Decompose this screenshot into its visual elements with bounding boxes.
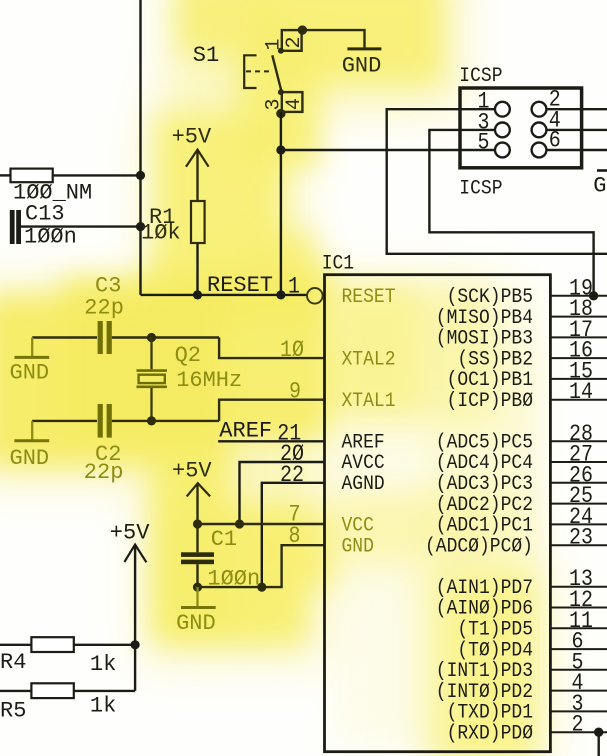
svg-text:(ADCØ)PCØ): (ADCØ)PCØ) <box>425 535 533 558</box>
IC1 pin 15 (OC1)PB1 <box>550 378 607 380</box>
ICSP pin 4 <box>532 122 547 137</box>
svg-text:(ICP)PBØ: (ICP)PBØ <box>447 389 533 412</box>
wire ICSP pin1 (MISO) <box>387 109 607 254</box>
ICSP pin 6 <box>532 143 547 158</box>
resistor 100_NM <box>0 174 11 176</box>
svg-text:+5V: +5V <box>172 459 212 484</box>
svg-text:(T1)PD5: (T1)PD5 <box>457 618 533 641</box>
svg-text:16MHz: 16MHz <box>176 368 242 393</box>
svg-text:(SCK)PB5: (SCK)PB5 <box>447 285 533 308</box>
IC1 pin 16 (SS)PB2 <box>550 357 607 359</box>
capacitor C1 100n <box>196 524 198 552</box>
ground symbol at right edge (cut) <box>597 169 607 172</box>
switch S1 contact box pin2 <box>282 30 302 51</box>
junction switch/ICSP pin5 <box>276 145 285 154</box>
svg-text:+5V: +5V <box>110 521 150 546</box>
svg-text:4: 4 <box>283 98 306 110</box>
svg-text:+5V: +5V <box>172 125 212 150</box>
switch S1 lever <box>272 55 281 91</box>
svg-text:(ADC2)PC2: (ADC2)PC2 <box>436 493 533 516</box>
svg-text:C13: C13 <box>25 202 65 227</box>
svg-text:1k: 1k <box>90 694 116 719</box>
svg-text:AREF: AREF <box>219 419 272 444</box>
svg-text:(AIN1)PD7: (AIN1)PD7 <box>436 576 533 599</box>
svg-text:R4: R4 <box>0 650 26 675</box>
IC1 pin 27 (ADC4)PC4 <box>550 461 607 463</box>
IC1 pin 24 (ADC1)PC1 <box>550 523 607 525</box>
junction pin2 net <box>594 728 603 737</box>
svg-text:9: 9 <box>289 378 301 405</box>
junction switch pin4 <box>276 109 285 118</box>
wire R1 bottom <box>196 243 198 295</box>
svg-text:(INTØ)PD2: (INTØ)PD2 <box>436 680 533 703</box>
svg-text:3: 3 <box>263 98 286 110</box>
IC1 pin 25 (ADC2)PC2 <box>550 503 607 505</box>
wire pin2 down to edge <box>598 732 600 756</box>
IC1 pin 2 (RXD)PD0 <box>550 731 607 733</box>
IC1 pin 23 (ADC0)PC0) <box>550 544 607 546</box>
resistor R4 1k <box>0 644 31 646</box>
svg-text:R5: R5 <box>0 699 26 724</box>
svg-text:(INT1)PD3: (INT1)PD3 <box>436 659 533 682</box>
ICSP pin 5 <box>495 143 510 158</box>
svg-text:(ADC1)PC1: (ADC1)PC1 <box>436 514 533 537</box>
svg-text:(MISO)PB4: (MISO)PB4 <box>436 306 533 329</box>
net RESET <box>141 294 308 296</box>
junction XTAL2 node <box>147 333 156 342</box>
junction XTAL1 node <box>147 416 156 425</box>
wire C3 to node <box>112 336 219 338</box>
svg-text:XTAL1: XTAL1 <box>342 389 396 412</box>
wire ICSP pin3 (SCK) to IC pin19 <box>429 130 593 295</box>
capacitor C3 <box>98 321 103 354</box>
svg-text:1Ø: 1Ø <box>280 337 304 364</box>
svg-text:GND: GND <box>10 446 50 471</box>
svg-text:C1: C1 <box>211 527 237 552</box>
svg-text:(ADC4)PC4: (ADC4)PC4 <box>436 451 533 474</box>
svg-text:GND: GND <box>342 535 374 558</box>
svg-text:22: 22 <box>280 461 304 488</box>
wire GND to C3 <box>32 336 97 338</box>
svg-text:22p: 22p <box>84 460 124 485</box>
svg-text:AVCC: AVCC <box>342 451 385 474</box>
IC1 pin 3 (TXD)PD1 <box>550 710 607 712</box>
svg-text:8: 8 <box>289 523 301 550</box>
ICSP pin 1 <box>495 102 510 117</box>
svg-text:(OC1)PB1: (OC1)PB1 <box>447 368 533 391</box>
svg-text:1: 1 <box>288 273 300 300</box>
svg-text:GND: GND <box>10 361 50 386</box>
wire switch pin2 to GND <box>302 30 364 48</box>
wire ICSP pin 4 to right edge <box>546 129 607 131</box>
svg-text:Q2: Q2 <box>175 343 201 368</box>
svg-text:(TXD)PD1: (TXD)PD1 <box>447 701 533 724</box>
svg-text:VCC: VCC <box>342 514 374 537</box>
IC1 pin 28 (ADC5)PC5 <box>550 440 607 442</box>
junction switch pin2 <box>298 25 307 34</box>
IC1 pin 13 (AIN1)PD7 <box>550 586 607 588</box>
wire 100_NM to main net <box>53 174 141 176</box>
svg-text:22p: 22p <box>84 296 124 321</box>
svg-text:2: 2 <box>283 36 306 48</box>
IC1 pin 14 (ICP)PB0 <box>550 399 607 401</box>
junction AVCC/VCC <box>235 519 244 528</box>
net AREF <box>218 440 324 442</box>
IC1 pin 1 inversion circle <box>307 288 323 304</box>
svg-text:GND: GND <box>342 54 382 79</box>
svg-text:14: 14 <box>569 379 593 406</box>
ground symbol below C1 <box>196 587 198 607</box>
junction C13/main <box>136 222 145 231</box>
svg-text:IC1: IC1 <box>322 252 354 275</box>
svg-text:RESET: RESET <box>207 273 273 298</box>
IC1 pin 5 (INT1)PD3 <box>550 669 607 671</box>
svg-text:RESET: RESET <box>342 285 396 308</box>
wire ICSP pin 2 to right edge <box>546 108 607 110</box>
svg-text:(AINØ)PD6: (AINØ)PD6 <box>436 597 533 620</box>
wire main vertical net at x=140.5 <box>139 0 141 295</box>
junction C1/GND <box>193 583 202 592</box>
wire GND to C2 <box>32 420 97 422</box>
svg-text:(SS)PB2: (SS)PB2 <box>457 347 533 370</box>
wire VCC pin7 <box>198 523 325 525</box>
svg-text:2: 2 <box>572 711 584 738</box>
junction +5V/VCC <box>193 519 202 528</box>
ground symbol left lower <box>31 421 33 440</box>
wire ICSP pin 6 to right edge <box>546 149 607 151</box>
svg-text:5: 5 <box>478 129 490 156</box>
wire switch to ICSP pin5 <box>281 149 495 151</box>
svg-text:GND: GND <box>176 611 216 636</box>
svg-text:(ADC3)PC3: (ADC3)PC3 <box>436 472 533 495</box>
svg-text:AGND: AGND <box>342 472 385 495</box>
ICSP pin 2 <box>532 102 547 117</box>
ground symbol at switch <box>347 47 381 50</box>
IC1 pin 17 (MOSI)PB3 <box>550 336 607 338</box>
ICSP pin 3 <box>495 122 510 137</box>
svg-text:XTAL2: XTAL2 <box>342 347 396 370</box>
crystal Q2 16MHz <box>150 338 152 370</box>
junction SCK/pin19 <box>589 291 598 300</box>
svg-text:GND: GND <box>593 174 607 199</box>
wire GND pin8 <box>198 545 325 587</box>
svg-text:1Øk: 1Øk <box>141 221 181 246</box>
svg-text:ICSP: ICSP <box>459 177 502 200</box>
junction switch/RESET <box>276 290 285 299</box>
switch S1 actuator bracket <box>244 55 256 88</box>
wire switch pin4 down to RESET net <box>280 112 282 295</box>
svg-text:S1: S1 <box>193 43 219 68</box>
ground symbol left upper <box>31 338 33 357</box>
junction 100_NM/main <box>136 171 145 180</box>
svg-text:1ØØn: 1ØØn <box>24 225 77 250</box>
wire AGND pin22 <box>262 483 325 587</box>
IC1 pin 18 (MISO)PB4 <box>550 316 607 318</box>
svg-text:(RXD)PDØ: (RXD)PDØ <box>447 722 533 745</box>
IC1 pin 12 (AIN0)PD6 <box>550 607 607 609</box>
IC1 pin 4 (INT0)PD2 <box>550 690 607 692</box>
wire node to IC pin10 <box>219 338 324 359</box>
wire C13 to main net <box>21 225 141 227</box>
IC1 pin 6 (T0)PD4 <box>550 648 607 650</box>
IC1 pin 26 (ADC3)PC3 <box>550 482 607 484</box>
switch S1 contact box pin4 <box>282 92 303 112</box>
wire AVCC pin20 <box>240 462 325 524</box>
svg-text:1k: 1k <box>90 652 116 677</box>
wire node to IC pin9 <box>219 400 324 421</box>
capacitor C2 <box>98 404 103 438</box>
wire C2 to node <box>112 420 219 422</box>
IC1 pin 19 (SCK)PB5 <box>550 295 607 297</box>
junction AGND/GND <box>257 583 266 592</box>
junction R1/RESET <box>193 290 202 299</box>
junction R4/+5V <box>131 640 140 649</box>
resistor R5 1k <box>0 690 31 692</box>
resistor R1 10k <box>191 201 205 243</box>
capacitor C13 100n <box>10 210 15 244</box>
svg-text:ICSP: ICSP <box>459 64 502 87</box>
IC1 pin 11 (T1)PD5 <box>550 627 607 629</box>
svg-text:23: 23 <box>569 524 593 551</box>
